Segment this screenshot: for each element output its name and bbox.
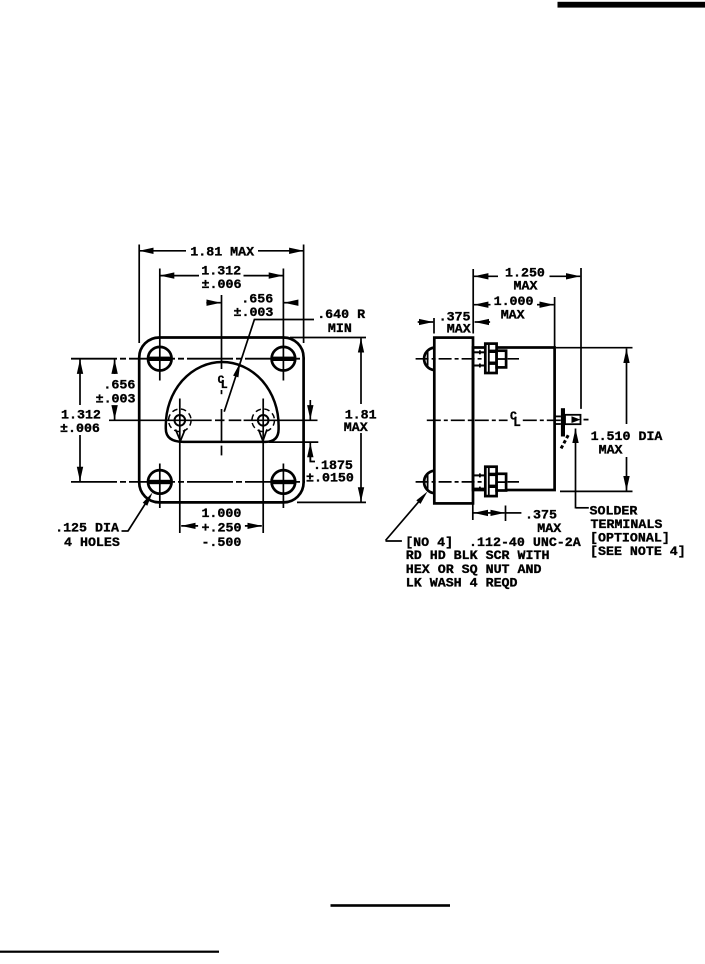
- dimension .1875 +-.0150: [269, 400, 354, 485]
- body D outline: [166, 362, 279, 442]
- screw stud bottom: [473, 473, 485, 490]
- hex nut top: [497, 351, 507, 368]
- dimension .375 MAX bottom: [473, 498, 561, 536]
- screw centerline bottom: [416, 481, 519, 483]
- screw centerline top: [416, 358, 519, 360]
- mounting hole top-right: [271, 269, 296, 381]
- mounting hole top-left: [147, 269, 172, 381]
- dimension 1.510 DIA MAX: [556, 348, 662, 492]
- dimension 1.250 MAX: [473, 266, 581, 409]
- svg-text:RD HD BLK SCR WITH: RD HD BLK SCR WITH: [406, 548, 550, 563]
- svg-text:L: L: [221, 379, 228, 392]
- svg-text:1.000: 1.000: [201, 506, 241, 521]
- page rule top right: [558, 2, 705, 8]
- svg-text:.640 R: .640 R: [317, 307, 365, 322]
- body side view: [473, 348, 555, 491]
- leader screw note: [386, 492, 428, 542]
- keyway notch left: [176, 429, 186, 441]
- svg-text:MAX: MAX: [501, 308, 525, 323]
- svg-text:±.003: ±.003: [96, 392, 136, 407]
- terminal hole left: [169, 399, 192, 534]
- svg-text:.656: .656: [103, 378, 135, 393]
- lock washer bottom: [485, 467, 496, 496]
- svg-text:MAX: MAX: [447, 321, 471, 336]
- leader .125 DIA 4 HOLES: [55, 493, 152, 550]
- lock washer top: [485, 344, 496, 373]
- svg-text:MAX: MAX: [344, 420, 368, 435]
- svg-text:MAX: MAX: [537, 521, 561, 536]
- svg-text:LK WASH 4 REQD: LK WASH 4 REQD: [406, 575, 518, 590]
- note screw text: [405, 535, 581, 590]
- dimension 1.000 MAX: [474, 294, 555, 347]
- radius callout .640 R MIN: [224, 307, 365, 412]
- dimension .375 MAX top: [418, 309, 490, 336]
- page rule bottom left: [0, 951, 219, 953]
- svg-text:[SEE NOTE 4]: [SEE NOTE 4]: [590, 544, 686, 559]
- svg-text:1.81 MAX: 1.81 MAX: [190, 244, 254, 259]
- svg-text:±.0150: ±.0150: [306, 470, 354, 485]
- svg-text:±.006: ±.006: [60, 421, 100, 436]
- flange outline front view: [139, 338, 303, 503]
- terminal hole right: [252, 399, 275, 534]
- flange side view: [434, 338, 473, 504]
- svg-text:MAX: MAX: [514, 279, 538, 294]
- svg-text:±.006: ±.006: [202, 277, 242, 292]
- svg-text:±.003: ±.003: [233, 305, 273, 320]
- dimension .656 +-.003 top: [206, 291, 297, 320]
- solder terminal: [555, 408, 589, 449]
- centerline vertical front view: [221, 295, 223, 455]
- centerline horizontal front view: [109, 419, 318, 421]
- dimension 1.312 +-.006 top: [160, 264, 283, 292]
- centerline symbol front view: [217, 373, 229, 392]
- centerline symbol side view: [508, 409, 521, 430]
- dimension .656 +-.003 left: [96, 359, 136, 419]
- mounting hole bottom-left: [147, 464, 172, 509]
- dimension 1.81 MAX top: [139, 244, 303, 343]
- keyway notch right: [259, 429, 268, 441]
- svg-text:.125 DIA: .125 DIA: [55, 521, 119, 536]
- svg-text:-.500: -.500: [201, 535, 241, 550]
- leader solder terminals: [576, 429, 589, 509]
- dimension 1.000 +.250 -.500 bottom: [181, 506, 262, 550]
- screw head top: [424, 348, 434, 371]
- dimension 1.312 +-.006 left: [60, 359, 101, 481]
- note solder terminals text: [590, 503, 686, 559]
- svg-text:MAX: MAX: [599, 443, 623, 458]
- svg-text:MIN: MIN: [328, 321, 352, 336]
- body centerline side view: [427, 419, 570, 421]
- svg-text:4 HOLES: 4 HOLES: [64, 535, 120, 550]
- hole row centerline top: [71, 358, 305, 360]
- page rule bottom center: [331, 904, 451, 907]
- dimension 1.81 MAX right: [290, 338, 377, 503]
- svg-text:L: L: [513, 416, 521, 430]
- screw stud top: [473, 350, 485, 367]
- screw head bottom: [424, 471, 434, 494]
- hex nut bottom: [497, 474, 507, 491]
- hole row centerline bottom: [71, 481, 305, 483]
- mounting hole bottom-right: [271, 464, 296, 509]
- svg-text:+.250: +.250: [202, 520, 242, 535]
